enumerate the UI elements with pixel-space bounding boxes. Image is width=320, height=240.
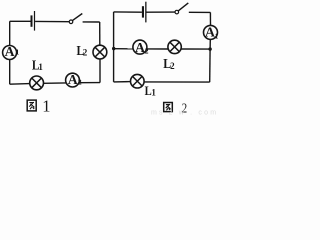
svg-text:1: 1 [38, 62, 43, 72]
svg-text:1: 1 [215, 31, 219, 40]
svg-text:1: 1 [42, 97, 50, 116]
svg-text:1: 1 [151, 87, 156, 97]
svg-text:1: 1 [16, 48, 20, 57]
svg-text:2: 2 [170, 61, 175, 71]
svg-text:2: 2 [83, 47, 88, 57]
svg-text:ms z w . com: ms z w . com [151, 109, 218, 116]
svg-text:A: A [135, 40, 145, 55]
svg-text:2: 2 [145, 46, 149, 55]
svg-text:A: A [205, 25, 215, 40]
svg-text:2: 2 [78, 78, 82, 87]
svg-text:A: A [5, 44, 15, 59]
svg-text:A: A [68, 72, 78, 87]
